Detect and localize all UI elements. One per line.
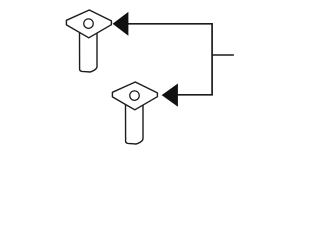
part 2 (fastener, bottom middle) — [112, 82, 157, 144]
arrowhead 1 (points left at part 1) — [113, 12, 129, 36]
part 2 hole — [130, 91, 140, 101]
part 2 shaft — [126, 103, 144, 145]
part 1 shaft — [80, 31, 98, 73]
part 1 (fastener, top left) — [66, 10, 111, 72]
part 1 head — [66, 10, 111, 38]
stub line on right — [212, 54, 234, 56]
part 2 head — [112, 82, 157, 110]
part 1 hole — [84, 19, 94, 29]
leader line elbow: top horizontal, right vertical, bottom horizontal — [128, 24, 213, 95]
arrowhead 2 (points left at part 2) — [162, 84, 178, 107]
